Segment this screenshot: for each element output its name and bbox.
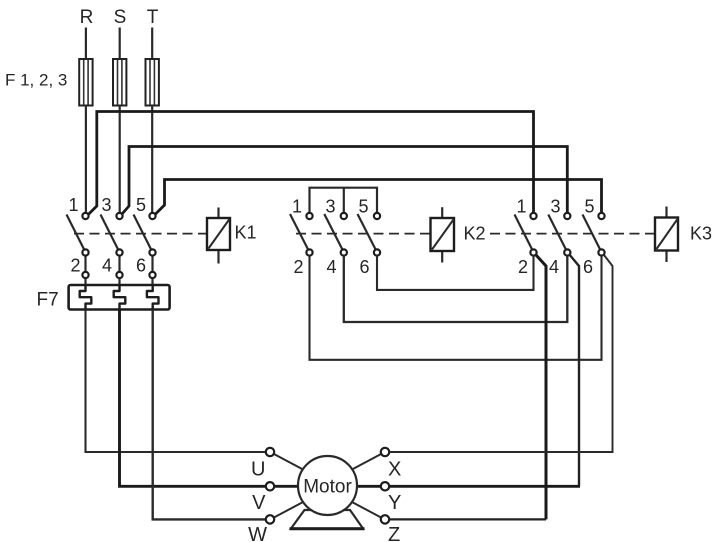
wire motor Z connector: [351, 502, 382, 519]
contactor K2 pole 1-2: [290, 213, 313, 256]
terminal U: [266, 448, 274, 456]
wire F7 to motor U: [86, 310, 268, 453]
wire K2 star bracket: [310, 188, 378, 214]
svg-text:4: 4: [326, 257, 336, 277]
contactor K2 pole 5-6: [358, 213, 381, 256]
svg-text:X: X: [388, 459, 401, 481]
wire fuse F1 to K1 pin 1: [85, 106, 87, 214]
wire fuse F3 to K1 pin 5: [151, 106, 153, 214]
mechanical linkage dashed K2: [296, 233, 431, 235]
wire motor Y row: [356, 485, 580, 488]
svg-text:3: 3: [550, 197, 560, 217]
wire F7 to motor V: [120, 310, 299, 487]
wire K2 pin 4 to K3 pin 4: [344, 256, 568, 323]
wire motor X row: [389, 451, 614, 453]
wire bus S phase to K3 pin 3: [122, 147, 567, 215]
svg-text:K1: K1: [235, 223, 257, 243]
wire K3 pin 2 to motor Z vertical: [536, 255, 546, 519]
svg-text:1: 1: [292, 197, 302, 217]
svg-text:K2: K2: [464, 224, 486, 244]
fuse F2: [113, 59, 126, 106]
svg-text:Y: Y: [388, 492, 401, 514]
svg-text:1: 1: [516, 197, 526, 217]
svg-text:W: W: [248, 524, 267, 542]
svg-text:4: 4: [549, 257, 559, 277]
svg-text:S: S: [114, 7, 127, 28]
svg-text:R: R: [80, 7, 94, 28]
wire motor X connector: [351, 454, 382, 471]
coil K1: [207, 208, 230, 264]
svg-text:U: U: [251, 459, 265, 481]
motor M1: [298, 456, 357, 515]
wire K1 pin 2 to overload F7: [84, 278, 86, 286]
wire R supply to fuse F1: [85, 28, 87, 60]
contactor K3 pole 3-4: [548, 213, 570, 256]
svg-text:2: 2: [293, 257, 303, 277]
mechanical linkage dashed K3: [490, 233, 655, 235]
wire bus T phase to K3 pin 5: [156, 180, 602, 215]
wire K2 pin 6 to K3 pin 2: [377, 256, 534, 290]
terminal Z: [381, 515, 389, 523]
wire S supply to fuse F2: [119, 28, 121, 60]
svg-text:Z: Z: [388, 524, 400, 542]
wire K3 pin 4 to motor Y vertical: [570, 255, 579, 486]
svg-text:V: V: [252, 492, 266, 514]
motor stand: [291, 510, 363, 529]
wire K2 bracket middle drop: [343, 188, 345, 214]
wire motor Z row: [389, 518, 546, 520]
svg-text:2: 2: [70, 256, 80, 276]
svg-text:6: 6: [583, 257, 593, 277]
svg-text:6: 6: [136, 256, 146, 276]
contactor K1 pole 5-6: [134, 213, 156, 278]
svg-text:1: 1: [68, 195, 78, 215]
contactor K3 pole 5-6: [583, 213, 605, 256]
svg-text:3: 3: [325, 197, 335, 217]
svg-text:3: 3: [101, 195, 111, 215]
wire K2 pin 2 to K3 pin 6: [310, 256, 602, 360]
terminal V: [266, 482, 274, 490]
svg-text:F7: F7: [37, 290, 59, 311]
svg-text:5: 5: [358, 197, 368, 217]
overload relay F7: [69, 285, 170, 310]
coil K3: [655, 207, 678, 263]
svg-text:2: 2: [518, 257, 528, 277]
terminal X: [381, 448, 389, 456]
svg-text:Motor: Motor: [303, 477, 352, 498]
svg-text:5: 5: [584, 197, 594, 217]
coil K2: [431, 207, 455, 262]
wire motor W connector: [273, 502, 304, 519]
wire K3 pin 6 to motor X vertical: [604, 255, 613, 452]
terminal W: [266, 515, 274, 523]
svg-text:4: 4: [102, 256, 112, 276]
contactor K2 pole 3-4: [324, 213, 347, 256]
svg-text:K3: K3: [690, 224, 712, 244]
fuse F1: [79, 59, 92, 106]
wire K1 pin 4 to overload F7: [118, 278, 120, 286]
contactor K1 pole 3-4: [101, 213, 123, 278]
contactor K1 pole 1-2: [67, 213, 89, 278]
terminal Y: [381, 482, 389, 490]
svg-text:T: T: [147, 7, 159, 28]
svg-text:5: 5: [136, 195, 146, 215]
wire K1 pin 6 to overload F7: [151, 278, 153, 286]
wire motor U connector: [273, 454, 304, 471]
wire F7 to motor W: [153, 310, 267, 520]
wire T supply to fuse F3: [151, 28, 153, 60]
wire fuse F2 to K1 pin 3: [119, 106, 121, 214]
svg-text:F 1, 2, 3: F 1, 2, 3: [5, 71, 67, 90]
contactor K3 pole 1-2: [515, 213, 537, 256]
mechanical linkage dashed K1: [74, 233, 207, 235]
fuse F3: [146, 59, 159, 106]
wire bus R phase to K3 pin 1: [89, 112, 534, 215]
svg-text:6: 6: [359, 257, 369, 277]
